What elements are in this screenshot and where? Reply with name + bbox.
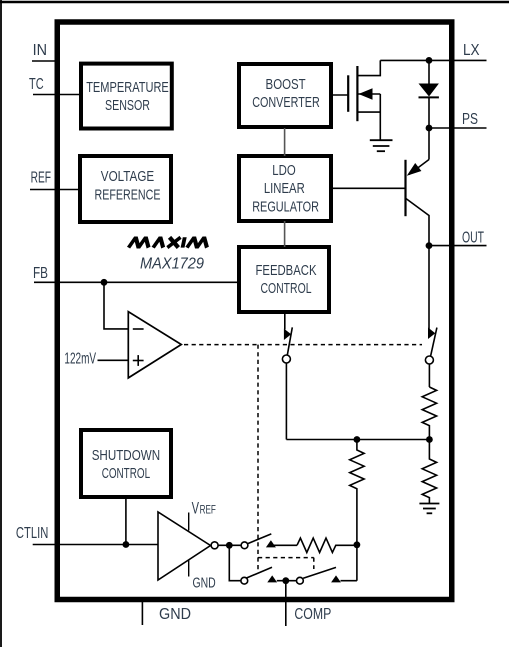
svg-text:FEEDBACK: FEEDBACK [256, 263, 317, 279]
svg-text:V: V [192, 498, 200, 517]
svg-text:REFERENCE: REFERENCE [95, 187, 161, 203]
svg-text:REF: REF [31, 170, 52, 187]
svg-text:OUT: OUT [462, 230, 484, 247]
svg-text:FB: FB [33, 265, 48, 282]
svg-text:CONVERTER: CONVERTER [252, 95, 320, 111]
svg-text:REGULATOR: REGULATOR [252, 200, 319, 216]
svg-text:GND: GND [193, 575, 216, 591]
svg-text:PS: PS [462, 111, 478, 128]
svg-text:LX: LX [463, 42, 480, 59]
svg-text:SENSOR: SENSOR [105, 98, 150, 114]
svg-text:COMP: COMP [294, 606, 331, 623]
svg-text:TC: TC [29, 76, 44, 93]
svg-text:LINEAR: LINEAR [264, 181, 305, 197]
svg-text:GND: GND [159, 606, 191, 623]
svg-text:TEMPERATURE: TEMPERATURE [86, 80, 169, 96]
svg-text:122mV: 122mV [64, 350, 96, 367]
svg-text:IN: IN [33, 42, 47, 59]
svg-text:LDO: LDO [272, 163, 295, 179]
svg-text:CONTROL: CONTROL [261, 281, 312, 297]
svg-text:CTLIN: CTLIN [16, 525, 48, 542]
svg-text:CONTROL: CONTROL [102, 466, 150, 482]
svg-text:MAX1729: MAX1729 [140, 255, 204, 272]
svg-text:SHUTDOWN: SHUTDOWN [92, 448, 160, 464]
svg-text:BOOST: BOOST [266, 77, 306, 93]
svg-text:REF: REF [200, 502, 216, 516]
svg-text:VOLTAGE: VOLTAGE [101, 169, 154, 185]
